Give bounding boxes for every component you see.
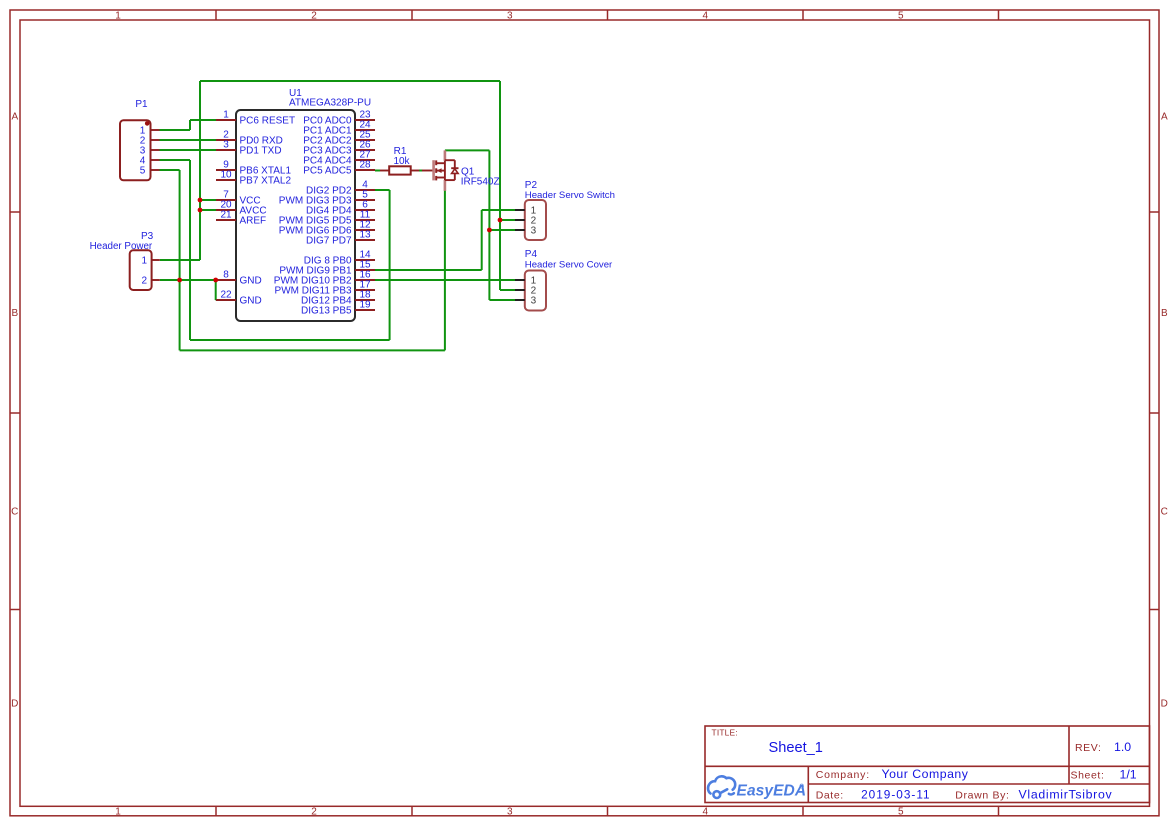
U1 pin 13 DIG7 PD7 [306, 229, 375, 246]
svg-text:AREF: AREF [240, 216, 267, 227]
svg-text:Header Servo Switch: Header Servo Switch [525, 190, 615, 201]
svg-text:1: 1 [142, 256, 148, 267]
U1 pin 9 PB6 XTAL1 [216, 159, 291, 176]
junction GND at U1.8 [213, 278, 218, 283]
EasyEDA logo [708, 776, 806, 799]
svg-text:DIG13 PB5: DIG13 PB5 [301, 306, 352, 317]
junction drain net at P2.3 [487, 228, 492, 233]
svg-text:1: 1 [223, 109, 229, 120]
U1 pin 7 VCC [216, 189, 261, 206]
U1 pin 18 DIG12 PB4 [301, 289, 375, 306]
svg-text:Your Company: Your Company [882, 767, 969, 781]
svg-text:5: 5 [898, 10, 904, 21]
svg-text:PC6 RESET: PC6 RESET [240, 116, 296, 127]
svg-text:Date:: Date: [816, 790, 844, 802]
U1 pin 1 PC6 RESET [216, 109, 295, 126]
svg-text:GND: GND [240, 296, 262, 307]
svg-text:5: 5 [898, 806, 904, 817]
svg-text:4: 4 [703, 10, 709, 21]
svg-text:3: 3 [507, 10, 513, 21]
junction VCC at U1.7 [198, 198, 203, 203]
svg-text:PD1 TXD: PD1 TXD [240, 146, 282, 157]
wire PD2 net P1.4 to U1.4 [160, 159, 191, 161]
wire TXD net P1.3 to U1.3 [160, 149, 217, 151]
svg-text:D: D [11, 699, 18, 710]
svg-text:ATMEGA328P-PU: ATMEGA328P-PU [289, 98, 371, 109]
connector P4 Header Servo Cover [515, 249, 613, 310]
svg-text:19: 19 [359, 299, 371, 310]
svg-text:Drawn By:: Drawn By: [955, 790, 1009, 802]
connector P2 Header Servo Switch [515, 180, 615, 240]
wire GND net [160, 279, 216, 281]
svg-text:Sheet:: Sheet: [1071, 770, 1105, 782]
svg-text:PC5 ADC5: PC5 ADC5 [303, 166, 352, 177]
svg-text:1.0: 1.0 [1114, 740, 1131, 754]
U1 pin 10 PB7 XTAL2 [216, 169, 291, 186]
junction VCC at P2.2 [498, 218, 503, 223]
svg-text:R1: R1 [394, 146, 407, 157]
U1 pin 15 PWM DIG9 PB1 [279, 259, 375, 276]
svg-text:C: C [1161, 507, 1168, 518]
svg-text:REV:: REV: [1075, 742, 1102, 754]
svg-text:1: 1 [115, 806, 121, 817]
svg-text:10: 10 [220, 169, 232, 180]
svg-text:Company:: Company: [816, 769, 870, 781]
svg-text:3: 3 [531, 226, 537, 237]
connector P1 5-pin header [120, 99, 160, 181]
U1 pin 17 PWM DIG11 PB3 [275, 279, 375, 296]
svg-text:3: 3 [223, 139, 229, 150]
svg-text:®: ® [800, 784, 805, 791]
U1 pin 25 PC2 ADC2 [303, 129, 375, 146]
U1 pin 5 PWM DIG3 PD3 [279, 189, 375, 206]
svg-text:EasyEDA: EasyEDA [737, 782, 807, 799]
U1 pin 14 DIG 8 PB0 [304, 249, 375, 266]
svg-text:VladimirTsibrov: VladimirTsibrov [1019, 788, 1113, 802]
svg-text:22: 22 [220, 289, 232, 300]
wire VCC net [199, 81, 201, 260]
svg-text:28: 28 [359, 159, 371, 170]
svg-text:Header Power: Header Power [90, 241, 153, 252]
svg-text:3: 3 [531, 296, 537, 307]
wire Q1 drain net to P2.3 and P4.3 [445, 149, 490, 151]
transistor Q1 IRF540Z N-MOSFET [422, 150, 500, 190]
wire PB1 net U1.15 to P2.1 [375, 269, 482, 271]
svg-text:Header Servo Cover: Header Servo Cover [525, 259, 613, 270]
svg-text:4: 4 [703, 806, 709, 817]
junction GND / P1.5 [177, 278, 182, 283]
wire PC5 to R1 [375, 170, 380, 172]
svg-text:P2: P2 [525, 180, 538, 191]
svg-text:PB7 XTAL2: PB7 XTAL2 [240, 176, 292, 187]
svg-text:2: 2 [311, 10, 317, 21]
svg-text:B: B [11, 308, 18, 319]
svg-text:A: A [1161, 112, 1168, 123]
U1 pin 11 PWM DIG5 PD5 [279, 209, 375, 226]
svg-text:IRF540Z: IRF540Z [461, 176, 500, 187]
svg-text:P1: P1 [135, 99, 148, 110]
svg-text:D: D [1161, 699, 1168, 710]
U1 pin 21 AREF [216, 209, 266, 226]
svg-text:C: C [11, 507, 18, 518]
svg-text:3: 3 [507, 806, 513, 817]
U1 pin 28 PC5 ADC5 [303, 159, 375, 176]
svg-text:2: 2 [142, 276, 148, 287]
svg-text:B: B [1161, 308, 1168, 319]
U1 pin 6 DIG4 PD4 [306, 199, 375, 216]
wire RXD net P1.2 to U1.2 [160, 139, 217, 141]
svg-text:10k: 10k [393, 156, 410, 167]
U1 pin 2 PD0 RXD [216, 129, 283, 146]
svg-text:1: 1 [115, 10, 121, 21]
svg-text:5: 5 [140, 166, 146, 177]
U1 pin 23 PC0 ADC0 [303, 109, 375, 126]
connector P3 Header Power [90, 231, 160, 290]
wire RESET net P1.1 to U1.1 [160, 129, 191, 131]
svg-text:DIG7 PD7: DIG7 PD7 [306, 236, 352, 247]
svg-text:TITLE:: TITLE: [712, 727, 738, 737]
resistor R1 10k [380, 146, 419, 175]
U1 pin 12 PWM DIG6 PD6 [279, 219, 375, 236]
svg-text:Sheet_1: Sheet_1 [769, 740, 823, 756]
wire R1 to Q1 gate [419, 170, 423, 172]
U1 pin 4 DIG2 PD2 [306, 179, 375, 196]
U1 pin 26 PC3 ADC3 [303, 139, 375, 156]
U1 pin 16 PWM DIG10 PB2 [274, 269, 375, 286]
svg-text:2019-03-11: 2019-03-11 [861, 788, 930, 802]
junction AVCC at U1.20 [198, 208, 203, 213]
svg-text:A: A [11, 112, 18, 123]
svg-text:1/1: 1/1 [1120, 768, 1137, 782]
U1 pin 24 PC1 ADC1 [303, 119, 375, 136]
svg-text:8: 8 [223, 269, 229, 280]
U1 pin 22 GND [216, 289, 262, 306]
U1 pin 8 GND [216, 269, 262, 286]
wire PB2 net U1.16 to P4.1 [375, 279, 515, 281]
svg-text:13: 13 [359, 229, 371, 240]
U1 pin 27 PC4 ADC4 [303, 149, 375, 166]
U1 pin 3 PD1 TXD [216, 139, 282, 156]
U1 pin 20 AVCC [216, 199, 267, 216]
IC U1 ATMEGA328P-PU body [236, 88, 371, 321]
svg-text:GND: GND [240, 276, 262, 287]
svg-text:2: 2 [311, 806, 317, 817]
U1 pin 19 DIG13 PB5 [301, 299, 375, 316]
title block [705, 726, 1150, 803]
svg-text:21: 21 [220, 209, 232, 220]
